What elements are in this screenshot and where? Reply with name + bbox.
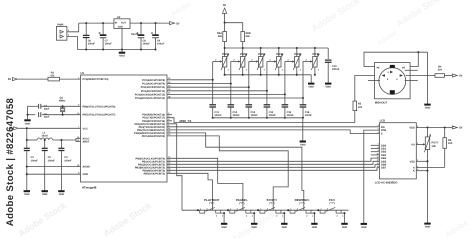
junction cap rail C12 bbox=[230, 117, 232, 119]
wire PD6 to FF button bbox=[167, 133, 304, 210]
svg-text:GND: GND bbox=[24, 193, 30, 196]
svg-text:12: 12 bbox=[377, 159, 379, 162]
capacitor C7 bbox=[102, 23, 104, 35]
wire POT5 wiper bbox=[285, 61, 294, 63]
capacitor C12 100nF bbox=[228, 104, 235, 106]
wire MIDI shield top rail bbox=[364, 52, 428, 66]
svg-text:1: 1 bbox=[228, 54, 229, 57]
junction REWIND/< left bbox=[287, 209, 289, 211]
capacitor C4 22pF bbox=[39, 104, 41, 109]
svg-text:K: K bbox=[413, 170, 415, 173]
svg-text:100nF: 100nF bbox=[233, 114, 241, 117]
svg-text:100nF: 100nF bbox=[88, 42, 96, 45]
svg-text:100uF: 100uF bbox=[143, 42, 151, 45]
wire ADC4 bus PC4 to POT5 bbox=[167, 93, 285, 95]
wire 5V to R1 bbox=[18, 78, 48, 80]
supply arrow 5V MIDI bbox=[452, 74, 457, 77]
wire ADC3 bus PC3 to POT4 bbox=[167, 90, 267, 92]
wire STOP/+ to ground bbox=[281, 213, 284, 223]
svg-text:26: 26 bbox=[168, 88, 170, 91]
junction pot gnd rail POT6 bbox=[314, 74, 316, 76]
junction pot gnd rail POT1 bbox=[224, 74, 226, 76]
svg-text:10uH: 10uH bbox=[41, 135, 47, 138]
capacitor C10 bbox=[325, 59, 332, 61]
svg-text:U1: U1 bbox=[81, 71, 85, 75]
svg-text:STOP/+: STOP/+ bbox=[267, 198, 278, 202]
junction pot gnd rail POT3 bbox=[260, 74, 262, 76]
MIDI stub pin1 bbox=[405, 69, 418, 71]
svg-text:3: 3 bbox=[237, 207, 238, 210]
wire regulator ground rail bbox=[78, 49, 156, 51]
svg-text:("T"): ("T") bbox=[299, 202, 304, 205]
wire ADC2 bus PC2 to POT3 bbox=[167, 86, 249, 88]
svg-text:GND: GND bbox=[25, 122, 31, 125]
junction shield rail bbox=[417, 51, 419, 53]
wire PB0 to STOP button bbox=[167, 158, 243, 210]
svg-text:VO: VO bbox=[411, 143, 415, 146]
svg-text:GND: GND bbox=[312, 226, 318, 229]
wire DB6 data line bbox=[167, 165, 379, 168]
ground C2 bbox=[42, 190, 48, 192]
svg-text:5V: 5V bbox=[176, 22, 179, 25]
wire DB7 data line bbox=[167, 168, 379, 171]
wire filter cap ground rail bbox=[213, 117, 303, 119]
junction STOP/+ left bbox=[257, 209, 259, 211]
wire XTAL1 bbox=[28, 105, 36, 107]
wire R3 to MIDI pin5 bbox=[355, 76, 379, 102]
svg-text:GND: GND bbox=[59, 193, 65, 196]
svg-text:100uF: 100uF bbox=[105, 42, 113, 45]
svg-text:OUT: OUT bbox=[121, 21, 127, 24]
svg-text:1: 1 bbox=[300, 54, 301, 57]
svg-text:2: 2 bbox=[276, 215, 277, 218]
resistor R1 47k bbox=[48, 77, 60, 81]
resistor R2B 50k bbox=[241, 32, 245, 42]
wire AGND bbox=[27, 166, 81, 168]
wire PWR pin1 to VIN rail bbox=[67, 23, 79, 32]
junction GND-C8 bbox=[140, 48, 142, 50]
ground crystal bbox=[24, 119, 30, 121]
wire pot bottom rail bbox=[225, 74, 312, 76]
potentiometer POT7 10k bbox=[427, 128, 429, 137]
svg-text:6: 6 bbox=[378, 131, 379, 134]
junction pot rail POT1 bbox=[224, 47, 226, 49]
svg-text:3: 3 bbox=[300, 68, 301, 71]
svg-text:220: 220 bbox=[438, 69, 443, 72]
wire AREF bbox=[76, 140, 81, 142]
svg-text:ATmega48: ATmega48 bbox=[82, 185, 97, 189]
wire POT3 wiper drop bbox=[248, 62, 250, 88]
svg-text:FF/>: FF/> bbox=[329, 198, 335, 202]
svg-text:IN: IN bbox=[115, 21, 118, 24]
svg-text:2: 2 bbox=[233, 59, 234, 62]
junction AGND bbox=[26, 166, 28, 168]
resistor R4 220 bbox=[435, 74, 445, 78]
ground MIDI shield bbox=[424, 104, 430, 106]
svg-text:GND: GND bbox=[119, 55, 125, 58]
svg-text:11: 11 bbox=[377, 156, 379, 159]
svg-text:100nF: 100nF bbox=[305, 114, 313, 117]
svg-text:PE: PE bbox=[377, 67, 381, 70]
svg-text:3: 3 bbox=[246, 68, 247, 71]
capacitor C1 100nF bbox=[24, 147, 30, 149]
junction GND pin bbox=[26, 173, 28, 175]
ground FF/> bbox=[341, 223, 347, 225]
junction cap rail C11 bbox=[212, 117, 214, 119]
svg-text:25: 25 bbox=[168, 85, 170, 88]
wire shield rail to ground bbox=[427, 52, 429, 103]
wire DB5 data line bbox=[167, 161, 379, 164]
svg-text:GND: GND bbox=[83, 173, 89, 176]
wire POT4 wiper bbox=[267, 61, 276, 63]
wire R1 to PC6 reset bbox=[60, 78, 81, 80]
junction ADC3 wiper bbox=[266, 90, 268, 92]
connector MIDI-OUT DIN bbox=[375, 63, 411, 99]
wire DB4 data line bbox=[167, 158, 379, 161]
wire POT2 wiper drop bbox=[230, 62, 232, 84]
junction ADC1 wiper bbox=[230, 83, 232, 85]
wire REWIND/< to ground bbox=[311, 213, 314, 223]
potentiometer POT5 bbox=[296, 48, 298, 57]
LCD module LCD-AC-0802EDG bbox=[379, 123, 416, 179]
wire XTAL2 bbox=[28, 114, 36, 116]
junction pot gnd rail POT4 bbox=[278, 74, 280, 76]
svg-text:AREF: AREF bbox=[83, 141, 90, 144]
wire POT6 wiper bbox=[303, 61, 312, 63]
wire PLAY/EDIT to ground bbox=[221, 213, 224, 223]
svg-text:VCC: VCC bbox=[83, 127, 88, 130]
wire U2 GND pin down bbox=[121, 29, 123, 50]
svg-text:5V: 5V bbox=[223, 4, 226, 7]
ground C3 bbox=[58, 190, 64, 192]
svg-text:1: 1 bbox=[264, 54, 265, 57]
capacitor C2 100nF bbox=[44, 140, 46, 148]
svg-text:2: 2 bbox=[270, 59, 271, 62]
svg-text:100nF: 100nF bbox=[269, 114, 277, 117]
svg-text:PB7(XTAL2/TOSC2/PCINT7): PB7(XTAL2/TOSC2/PCINT7) bbox=[83, 114, 116, 117]
ground STOP/+ bbox=[281, 223, 287, 225]
svg-text:GND: GND bbox=[425, 107, 431, 110]
svg-text:4MHz: 4MHz bbox=[59, 100, 66, 103]
svg-text:("T"): ("T") bbox=[209, 202, 214, 205]
potentiometer POT3 bbox=[260, 48, 262, 57]
potentiometer POT2 bbox=[242, 48, 244, 57]
svg-text:100uF: 100uF bbox=[157, 42, 165, 45]
wire POT4 wiper to C14 bbox=[266, 91, 268, 105]
wire FF/> to ground bbox=[341, 213, 344, 223]
svg-text:100nF: 100nF bbox=[64, 160, 72, 163]
resistor R2A 50k bbox=[223, 32, 227, 42]
ground pot rail bbox=[308, 83, 314, 85]
junction ADC5 wiper bbox=[302, 97, 304, 99]
wire L1 tap off VCC net bbox=[26, 139, 28, 141]
junction pot gnd rail POT5 bbox=[296, 74, 298, 76]
svg-text:AGND: AGND bbox=[83, 166, 91, 169]
ground R/W bbox=[361, 223, 367, 225]
U1 left pin labels bbox=[77, 76, 115, 176]
wire VO to POT7 wiper bbox=[416, 143, 424, 145]
capacitor C5 22pF bbox=[39, 112, 41, 117]
wire PD7 to REWIND button bbox=[167, 136, 288, 210]
capacitor C8 bbox=[140, 23, 142, 35]
wire crystal caps to ground bbox=[27, 106, 29, 119]
crystal Q1 4MHz bbox=[62, 106, 64, 108]
capacitor C3 100nF bbox=[60, 140, 62, 148]
svg-text:5V: 5V bbox=[9, 127, 12, 130]
capacitor C15 100nF bbox=[282, 104, 289, 106]
MIDI stub left bbox=[368, 80, 380, 82]
ground below U2 bbox=[121, 50, 123, 52]
wire POT7 bottom to ground bbox=[427, 150, 429, 223]
svg-text:GND: GND bbox=[342, 226, 348, 229]
MIDI stub pin3 bbox=[405, 80, 418, 82]
svg-text:22pF: 22pF bbox=[44, 107, 50, 110]
junction VIN-C7 bbox=[102, 22, 104, 24]
junction GND-C9 bbox=[154, 48, 156, 50]
ground REWIND/< bbox=[311, 223, 317, 225]
svg-text:PC6(RESET/PCINT14): PC6(RESET/PCINT14) bbox=[83, 78, 109, 81]
ground PAUSE/- bbox=[251, 223, 257, 225]
svg-text:100nF: 100nF bbox=[48, 160, 56, 163]
svg-text:("T"): ("T") bbox=[239, 202, 244, 205]
junction pot rail POT2 bbox=[242, 47, 244, 49]
svg-text:PB5(SCK/PCINT5): PB5(SCK/PCINT5) bbox=[144, 172, 166, 175]
svg-text:GND: GND bbox=[308, 86, 314, 89]
junction VDD-R5 bbox=[444, 126, 446, 128]
junction pot gnd rail POT2 bbox=[242, 74, 244, 76]
svg-text:MIDI_TX: MIDI_TX bbox=[180, 119, 192, 123]
svg-text:PAUSE/-: PAUSE/- bbox=[236, 198, 248, 202]
capacitor C14 100nF bbox=[264, 104, 271, 106]
supply arrow 5V LCD bbox=[452, 126, 457, 129]
wire C1 top bbox=[26, 128, 28, 148]
svg-text:VSS: VSS bbox=[410, 160, 415, 163]
capacitor C6 bbox=[85, 23, 87, 35]
junction cap rail C14 bbox=[266, 117, 268, 119]
svg-text:PC4(ADC4/SDA/PCINT12): PC4(ADC4/SDA/PCINT12) bbox=[135, 93, 165, 96]
LCD stubs DB0-DB3 bbox=[371, 144, 380, 146]
svg-text:1: 1 bbox=[290, 207, 291, 210]
svg-text:2: 2 bbox=[246, 215, 247, 218]
potentiometer POT1 bbox=[224, 48, 226, 57]
svg-text:3: 3 bbox=[282, 68, 283, 71]
junction ADC4 wiper bbox=[284, 93, 286, 95]
svg-text:5V: 5V bbox=[8, 78, 11, 81]
junction PAUSE/- left bbox=[227, 209, 229, 211]
svg-text:PC2(ADC2/PCINT10): PC2(ADC2/PCINT10) bbox=[141, 86, 165, 89]
junction GND-C7 bbox=[102, 48, 104, 50]
junction ADC2 wiper bbox=[248, 86, 250, 88]
svg-text:10k: 10k bbox=[432, 145, 437, 148]
wire AVCC bbox=[76, 139, 81, 141]
junction pot rail POT6 bbox=[314, 47, 316, 49]
resistor R3 220 bbox=[353, 101, 357, 111]
svg-text:GND: GND bbox=[221, 226, 227, 229]
svg-text:PC5(ADC5/SCL/PCINT13): PC5(ADC5/SCL/PCINT13) bbox=[135, 97, 165, 100]
supply arrow 5V regulator output bbox=[170, 22, 175, 25]
wire PAUSE/- to ground bbox=[251, 213, 254, 223]
svg-text:PLAY/EDIT: PLAY/EDIT bbox=[204, 198, 220, 202]
ground C10 bbox=[325, 83, 331, 85]
svg-text:3: 3 bbox=[267, 207, 268, 210]
junction XTAL2 gnd bbox=[26, 114, 28, 116]
svg-text:5V: 5V bbox=[459, 127, 462, 130]
wire VDD to 5V bbox=[416, 127, 452, 129]
wire POT2 wiper bbox=[231, 61, 240, 63]
ground PLAY/EDIT bbox=[221, 223, 227, 225]
potentiometer POT4 bbox=[278, 48, 280, 57]
wire VIN top rail bbox=[79, 22, 114, 24]
svg-text:3: 3 bbox=[228, 68, 229, 71]
wire POT1 wiper drop bbox=[212, 62, 214, 80]
svg-text:PB6(XTAL1/TOSC1/PCINT6): PB6(XTAL1/TOSC1/PCINT6) bbox=[83, 105, 116, 108]
resistor R5 220 bbox=[444, 128, 446, 138]
svg-text:3: 3 bbox=[297, 207, 298, 210]
wire ADC1 bus PC1 to POT2 bbox=[167, 83, 231, 85]
svg-text:PC3(ADC3/PCINT11): PC3(ADC3/PCINT11) bbox=[141, 90, 165, 93]
svg-text:GND: GND bbox=[42, 193, 48, 196]
svg-text:1: 1 bbox=[246, 54, 247, 57]
ground C1 bbox=[24, 190, 30, 192]
svg-text:REWIND/<: REWIND/< bbox=[295, 198, 310, 202]
svg-text:LCD-AC-0802EDG: LCD-AC-0802EDG bbox=[375, 182, 398, 185]
svg-text:MIDI-OUT: MIDI-OUT bbox=[375, 101, 388, 104]
wire button rail bbox=[182, 209, 349, 211]
svg-text:VDD: VDD bbox=[409, 127, 415, 130]
junction K bbox=[426, 170, 428, 172]
wire POT3 wiper bbox=[249, 61, 258, 63]
junction pot rail POT4 bbox=[278, 47, 280, 49]
wire POT6 wiper to C16 bbox=[302, 98, 304, 105]
svg-text:GND: GND bbox=[118, 26, 123, 29]
svg-text:U2: U2 bbox=[117, 16, 121, 19]
ground LCD bbox=[424, 223, 430, 225]
junction L1-C2 bbox=[44, 139, 46, 141]
connector PWR bbox=[56, 26, 67, 40]
wire 5V to R2A bbox=[224, 23, 226, 32]
op-amp U1 ATmega48 microcontroller bbox=[81, 75, 168, 182]
wire POT1 wiper bbox=[213, 61, 222, 63]
wire POT2 wiper to C12 bbox=[230, 84, 232, 105]
junction GND-C6 bbox=[85, 48, 87, 50]
U1 right pin labels bbox=[134, 77, 171, 175]
svg-text:1: 1 bbox=[260, 207, 261, 210]
wire pot top rail bbox=[225, 47, 329, 49]
junction XTAL2 crystal bbox=[62, 114, 64, 116]
svg-text:220: 220 bbox=[358, 106, 363, 109]
svg-text:22pF: 22pF bbox=[44, 116, 50, 119]
wire pot gnd rail drop bbox=[310, 75, 312, 83]
junction ADC0 wiper bbox=[212, 79, 214, 81]
svg-text:1: 1 bbox=[318, 54, 319, 57]
svg-text:PE: PE bbox=[402, 67, 406, 70]
wire pot rail to C10 bbox=[327, 48, 329, 59]
svg-text:PC0(ADC0/PCINT8): PC0(ADC0/PCINT8) bbox=[142, 79, 165, 82]
capacitor C13 100nF bbox=[246, 104, 253, 106]
svg-text:PD7(AIN1/PCINT23): PD7(AIN1/PCINT23) bbox=[142, 135, 165, 138]
svg-text:("T"): ("T") bbox=[330, 202, 335, 205]
junction XTAL1 crystal bbox=[62, 105, 64, 107]
wire A backlight anode bbox=[444, 148, 446, 167]
svg-text:2: 2 bbox=[306, 59, 307, 62]
junction PLAY/EDIT left bbox=[197, 209, 199, 211]
wire right PE to rail bbox=[410, 52, 418, 66]
wire E line bbox=[167, 130, 379, 134]
svg-text:E: E bbox=[381, 133, 383, 136]
wire RS line bbox=[167, 126, 379, 128]
svg-text:3: 3 bbox=[318, 68, 319, 71]
capacitor C11 100nF bbox=[209, 104, 216, 106]
svg-text:1: 1 bbox=[200, 207, 201, 210]
svg-text:2: 2 bbox=[216, 215, 217, 218]
svg-text:1: 1 bbox=[320, 207, 321, 210]
junction 5V-C9 bbox=[154, 22, 156, 24]
svg-text:5: 5 bbox=[378, 128, 379, 131]
svg-text:GND: GND bbox=[251, 226, 257, 229]
wire cap rail to ground bbox=[302, 118, 304, 141]
svg-text:100nF: 100nF bbox=[287, 114, 295, 117]
wire 5V to VCC pin bbox=[19, 127, 81, 129]
svg-text:50k: 50k bbox=[218, 35, 223, 38]
svg-text:100nF: 100nF bbox=[214, 114, 222, 117]
svg-text:3: 3 bbox=[207, 207, 208, 210]
svg-text:GND: GND bbox=[282, 226, 288, 229]
capacitor C16 100nF bbox=[300, 104, 307, 106]
junction cap rail C15 bbox=[284, 117, 286, 119]
junction VIN-C6 bbox=[85, 22, 87, 24]
regulator U2 78L05 bbox=[114, 19, 130, 29]
wire POT6 wiper drop bbox=[302, 62, 304, 99]
junction 5V split bbox=[224, 22, 226, 24]
svg-text:GND: GND bbox=[425, 226, 431, 229]
LCD left pin labels bbox=[377, 124, 387, 170]
svg-text:2: 2 bbox=[306, 215, 307, 218]
junction VDD-POT7 bbox=[426, 126, 428, 128]
svg-text:GND: GND bbox=[361, 226, 367, 229]
svg-text:("T"): ("T") bbox=[269, 202, 274, 205]
svg-text:1: 1 bbox=[282, 54, 283, 57]
svg-text:23: 23 bbox=[168, 77, 170, 80]
svg-text:5V: 5V bbox=[459, 75, 462, 78]
wire ADC0 bus PC0 to POT1 bbox=[167, 79, 213, 81]
capacitor C9 bbox=[155, 23, 157, 35]
svg-text:28: 28 bbox=[168, 95, 170, 98]
svg-text:47k: 47k bbox=[50, 75, 55, 78]
junction VCC-C1 bbox=[26, 127, 28, 129]
svg-text:3: 3 bbox=[264, 68, 265, 71]
wire MIDI_TX to R3 bbox=[354, 111, 356, 123]
junction 5V-C8 bbox=[140, 22, 142, 24]
wire K backlight cathode bbox=[416, 170, 427, 172]
wire POT1 wiper to C11 bbox=[212, 80, 214, 105]
svg-text:GND: GND bbox=[325, 86, 331, 89]
svg-text:1: 1 bbox=[230, 207, 231, 210]
svg-text:2: 2 bbox=[288, 59, 289, 62]
wire VSS bbox=[416, 160, 427, 162]
junction L1-C3 bbox=[60, 139, 62, 141]
junction cap rail C13 bbox=[248, 117, 250, 119]
svg-text:100nF: 100nF bbox=[251, 114, 259, 117]
LCD right pin labels bbox=[409, 125, 419, 173]
svg-text:2: 2 bbox=[251, 59, 252, 62]
wire ADC5 bus PC5 to POT6 bbox=[167, 97, 303, 99]
junction U2-GND rail bbox=[121, 48, 123, 50]
wire R/W to ground bbox=[364, 130, 380, 223]
ground filter caps bbox=[300, 141, 306, 143]
wire MIDI_TX bbox=[167, 118, 355, 123]
wire U2 output rail to 5V bbox=[130, 22, 170, 24]
svg-text:LCD: LCD bbox=[380, 120, 386, 123]
